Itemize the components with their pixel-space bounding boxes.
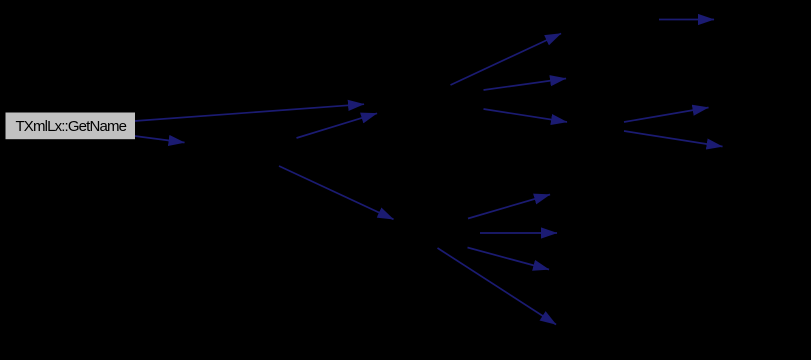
svg-text:TXmlLx::GetName: TXmlLx::GetName (15, 118, 126, 135)
